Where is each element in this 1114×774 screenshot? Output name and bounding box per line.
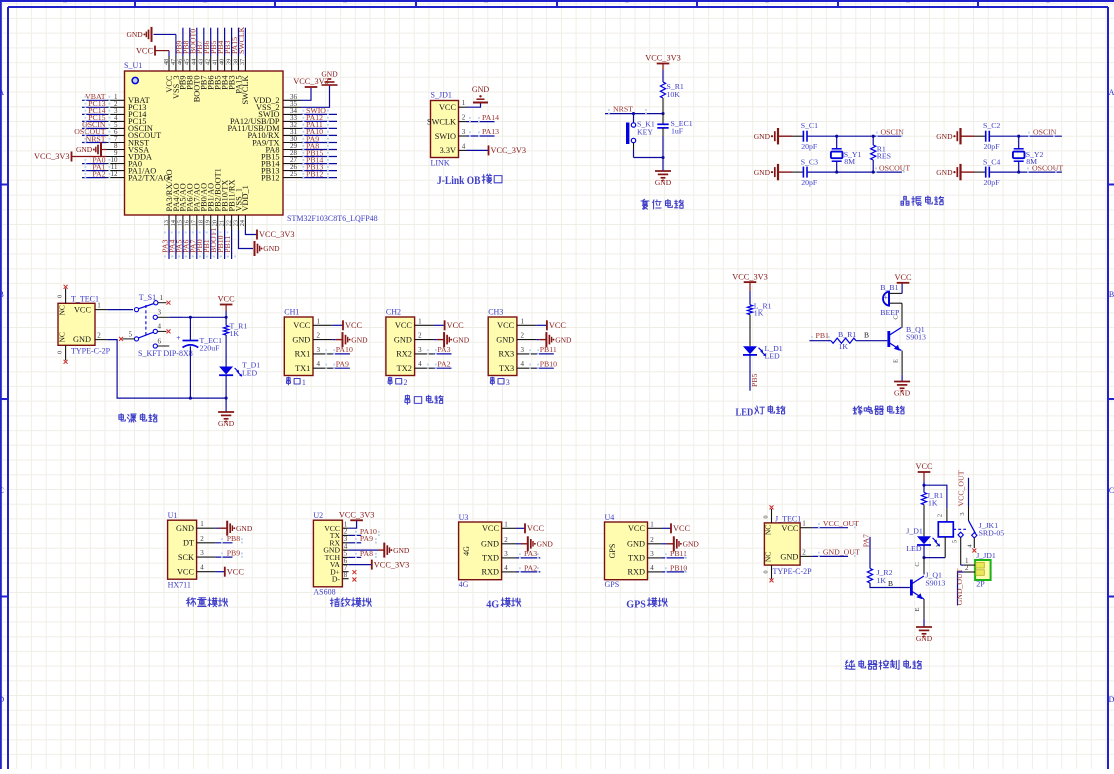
svg-text:TYPE-C-2P: TYPE-C-2P — [71, 347, 111, 356]
svg-text:1: 1 — [650, 520, 654, 528]
svg-text:GND: GND — [555, 335, 572, 344]
svg-text:TXD: TXD — [482, 554, 499, 563]
svg-text:B_B1: B_B1 — [880, 283, 898, 292]
svg-text:PA13: PA13 — [482, 127, 499, 136]
svg-text:3: 3 — [504, 550, 508, 558]
svg-text:B_R1: B_R1 — [838, 330, 856, 339]
svg-text:PA2: PA2 — [524, 563, 537, 572]
svg-text:PA2/TX/AO: PA2/TX/AO — [128, 173, 170, 182]
svg-text:4: 4 — [418, 360, 422, 368]
svg-text:25: 25 — [290, 170, 298, 178]
svg-text:VCC_3V3: VCC_3V3 — [732, 272, 768, 281]
svg-text:VCC_3V3: VCC_3V3 — [34, 152, 70, 161]
svg-text:GND: GND — [754, 132, 771, 141]
svg-text:GND: GND — [73, 335, 91, 344]
svg-text:C: C — [914, 562, 921, 566]
svg-text:PB11: PB11 — [540, 345, 557, 354]
svg-text:GND: GND — [321, 70, 338, 79]
svg-text:VCC: VCC — [227, 567, 245, 576]
svg-text:GND: GND — [236, 524, 253, 533]
svg-text:2: 2 — [504, 536, 508, 544]
svg-text:2: 2 — [200, 535, 204, 543]
svg-text:LINK: LINK — [431, 159, 450, 168]
svg-text:TX1: TX1 — [295, 364, 310, 373]
svg-text:2: 2 — [462, 114, 466, 122]
svg-text:GND: GND — [218, 419, 235, 428]
svg-text:15: 15 — [177, 220, 184, 226]
svg-text:GND: GND — [683, 540, 700, 549]
svg-text:GND: GND — [780, 553, 798, 562]
svg-text:RXD: RXD — [627, 568, 645, 577]
svg-text:4: 4 — [520, 360, 524, 368]
svg-text:OSCOUT: OSCOUT — [1032, 164, 1063, 173]
svg-text:S_C1: S_C1 — [801, 121, 818, 130]
svg-text:VCC: VCC — [74, 305, 92, 314]
svg-text:PB12: PB12 — [306, 169, 323, 178]
svg-text:CH3: CH3 — [488, 308, 503, 317]
svg-text:5: 5 — [129, 330, 133, 338]
svg-text:42: 42 — [205, 59, 212, 65]
svg-text:3: 3 — [520, 346, 524, 354]
svg-text:GND: GND — [393, 546, 410, 555]
svg-text:CH1: CH1 — [284, 308, 299, 317]
svg-text:DT: DT — [183, 539, 194, 548]
svg-text:PB8: PB8 — [227, 534, 241, 543]
svg-text:VCC: VCC — [136, 46, 154, 55]
svg-text:TX2: TX2 — [397, 364, 412, 373]
svg-text:S_C2: S_C2 — [983, 121, 1000, 130]
svg-text:12: 12 — [111, 170, 119, 178]
svg-text:17: 17 — [191, 220, 198, 226]
svg-text:PB1: PB1 — [816, 331, 830, 340]
svg-text:3: 3 — [650, 550, 654, 558]
svg-text:PA8: PA8 — [360, 549, 373, 558]
svg-text:VCC_3V3: VCC_3V3 — [374, 560, 410, 569]
svg-text:4: 4 — [158, 322, 162, 330]
svg-text:S_JD1: S_JD1 — [431, 91, 452, 100]
svg-text:TXD: TXD — [628, 554, 645, 563]
svg-text:2: 2 — [520, 332, 524, 340]
svg-text:S9013: S9013 — [906, 333, 926, 342]
svg-text:U3: U3 — [459, 513, 469, 522]
svg-text:NC: NC — [57, 332, 66, 342]
svg-text:48: 48 — [163, 59, 170, 65]
svg-text:46: 46 — [177, 59, 184, 65]
svg-text:S_KFT DIP-8X8: S_KFT DIP-8X8 — [138, 349, 193, 358]
svg-text:TX3: TX3 — [499, 364, 514, 373]
svg-text:+: + — [884, 294, 888, 302]
svg-text:PA9: PA9 — [360, 534, 373, 543]
svg-text:VCC_3V3: VCC_3V3 — [259, 230, 295, 239]
svg-text:GND: GND — [481, 540, 499, 549]
svg-text:C: C — [0, 486, 4, 495]
svg-text:4: 4 — [200, 564, 204, 572]
svg-text:VCC: VCC — [628, 524, 646, 533]
svg-text:3: 3 — [462, 128, 466, 136]
svg-text:LED: LED — [242, 369, 258, 378]
svg-text:VCC_3V3: VCC_3V3 — [339, 511, 375, 520]
svg-text:21: 21 — [218, 220, 225, 226]
svg-text:B: B — [0, 290, 4, 299]
svg-text:GND: GND — [916, 634, 933, 643]
svg-text:AS608: AS608 — [313, 588, 335, 597]
svg-text:E: E — [893, 359, 900, 363]
svg-text:PB5: PB5 — [750, 373, 759, 387]
svg-text:KEY: KEY — [637, 128, 653, 137]
svg-text:OSCIN: OSCIN — [881, 127, 905, 136]
svg-text:SRD-05: SRD-05 — [979, 529, 1005, 538]
svg-text:GND: GND — [76, 145, 93, 154]
svg-text:OSCOUT: OSCOUT — [879, 164, 910, 173]
svg-text:2: 2 — [937, 514, 944, 517]
svg-text:C: C — [1109, 486, 1114, 495]
svg-text:STM32F103C8T6_LQFP48: STM32F103C8T6_LQFP48 — [287, 214, 378, 223]
svg-text:0: 0 — [57, 295, 64, 298]
svg-text:S_C4: S_C4 — [983, 157, 1000, 166]
svg-text:44: 44 — [191, 59, 198, 65]
svg-text:BEEP: BEEP — [880, 308, 900, 317]
svg-text:U1: U1 — [168, 511, 178, 520]
svg-text:D-: D- — [332, 574, 341, 583]
svg-text:PA7: PA7 — [861, 534, 870, 547]
svg-text:2: 2 — [965, 564, 969, 572]
svg-text:4: 4 — [317, 360, 321, 368]
svg-text:PB12: PB12 — [261, 173, 279, 182]
svg-text:NRST: NRST — [86, 134, 106, 143]
svg-text:GND: GND — [472, 85, 490, 94]
svg-text:SWIO: SWIO — [435, 132, 456, 141]
svg-text:NC: NC — [57, 305, 66, 315]
svg-text:19: 19 — [205, 220, 212, 226]
svg-text:GND: GND — [126, 30, 143, 39]
svg-text:4G: 4G — [486, 599, 499, 611]
svg-text:GND: GND — [394, 335, 412, 344]
svg-text:S_C3: S_C3 — [801, 157, 818, 166]
svg-text:NC: NC — [764, 552, 773, 562]
svg-text:GND: GND — [292, 335, 310, 344]
svg-text:GND: GND — [496, 335, 514, 344]
svg-text:SWCLK: SWCLK — [237, 26, 246, 54]
svg-text:0: 0 — [763, 570, 770, 573]
svg-text:3: 3 — [158, 308, 162, 316]
svg-text:J_JD1: J_JD1 — [976, 551, 996, 560]
svg-text:NC: NC — [764, 525, 773, 535]
svg-text:2: 2 — [802, 548, 806, 556]
svg-text:VCC: VCC — [894, 273, 912, 282]
svg-text:1K: 1K — [839, 342, 849, 351]
svg-text:J_D1: J_D1 — [906, 527, 923, 536]
svg-text:4G: 4G — [462, 546, 471, 556]
svg-text:J_TEC1: J_TEC1 — [775, 514, 801, 523]
svg-text:VCC_3V3: VCC_3V3 — [645, 54, 681, 63]
svg-text:VCC_OUT: VCC_OUT — [823, 519, 859, 528]
svg-text:1K: 1K — [877, 576, 887, 585]
svg-text:3: 3 — [506, 378, 510, 387]
svg-text:VCC: VCC — [482, 524, 500, 533]
svg-text:LED: LED — [765, 352, 781, 361]
svg-text:2P: 2P — [976, 580, 985, 589]
svg-text:4: 4 — [650, 564, 654, 572]
svg-text:4: 4 — [462, 142, 466, 150]
svg-text:RX3: RX3 — [499, 350, 515, 359]
svg-text:A: A — [0, 88, 4, 97]
svg-text:HX711: HX711 — [168, 581, 191, 590]
svg-text:3: 3 — [418, 346, 422, 354]
svg-text:+: + — [176, 333, 180, 342]
svg-text:GPS: GPS — [605, 580, 620, 589]
svg-text:GND: GND — [936, 168, 953, 177]
svg-text:8M: 8M — [844, 157, 855, 166]
svg-text:PB9: PB9 — [227, 548, 241, 557]
svg-text:VCC_3V3: VCC_3V3 — [491, 146, 527, 155]
svg-text:6: 6 — [158, 337, 162, 345]
svg-text:GND: GND — [627, 540, 645, 549]
svg-text:GND_OUT: GND_OUT — [955, 568, 964, 605]
svg-text:GND: GND — [655, 178, 672, 187]
svg-text:RX1: RX1 — [295, 350, 311, 359]
svg-text:1: 1 — [200, 520, 204, 528]
svg-text:20pF: 20pF — [984, 178, 1001, 187]
svg-text:1: 1 — [935, 544, 942, 547]
svg-text:GND: GND — [263, 244, 280, 253]
svg-text:VCC: VCC — [395, 321, 413, 330]
svg-text:B: B — [888, 579, 893, 588]
svg-text:1K: 1K — [230, 329, 240, 338]
svg-text:VCC: VCC — [915, 462, 933, 471]
svg-text:E: E — [914, 607, 921, 611]
svg-text:2: 2 — [404, 378, 408, 387]
svg-text:PB10: PB10 — [540, 359, 557, 368]
svg-text:PA2: PA2 — [92, 169, 105, 178]
svg-text:J-Link OB: J-Link OB — [437, 175, 481, 187]
svg-text:4: 4 — [504, 564, 508, 572]
svg-text:PA3: PA3 — [524, 549, 537, 558]
svg-text:GND: GND — [754, 168, 771, 177]
svg-text:U4: U4 — [605, 513, 615, 522]
svg-text:3: 3 — [317, 346, 321, 354]
svg-text:B: B — [864, 330, 869, 339]
svg-text:GND: GND — [176, 524, 194, 533]
svg-text:S9013: S9013 — [925, 579, 945, 588]
svg-text:1: 1 — [462, 99, 466, 107]
svg-text:PA14: PA14 — [482, 113, 499, 122]
svg-text:VCC: VCC — [447, 321, 465, 330]
svg-text:5: 5 — [952, 540, 959, 543]
svg-text:20pF: 20pF — [801, 142, 818, 151]
svg-text:PA2: PA2 — [437, 359, 450, 368]
svg-text:SWCLK: SWCLK — [241, 75, 250, 104]
svg-text:GND: GND — [894, 388, 911, 397]
svg-text:1: 1 — [317, 317, 321, 325]
svg-text:20pF: 20pF — [801, 178, 818, 187]
svg-text:3: 3 — [959, 512, 966, 515]
svg-text:2: 2 — [418, 332, 422, 340]
svg-text:1: 1 — [504, 520, 508, 528]
svg-text:D: D — [1109, 695, 1114, 704]
svg-text:2: 2 — [97, 332, 101, 340]
svg-text:GND: GND — [453, 335, 470, 344]
svg-text:4G: 4G — [459, 580, 469, 589]
svg-text:1: 1 — [97, 302, 101, 310]
svg-text:VDD_1: VDD_1 — [241, 185, 250, 211]
svg-text:1K: 1K — [754, 309, 764, 318]
svg-text:D: D — [0, 695, 4, 704]
svg-text:3.3V: 3.3V — [440, 146, 456, 155]
svg-text:0: 0 — [763, 515, 770, 518]
svg-text:U2: U2 — [313, 511, 323, 520]
svg-text:SCK: SCK — [178, 553, 194, 562]
svg-text:PA3: PA3 — [437, 345, 450, 354]
svg-text:VCC: VCC — [293, 321, 311, 330]
svg-text:2: 2 — [317, 332, 321, 340]
svg-text:VCC: VCC — [218, 295, 236, 304]
svg-text:1: 1 — [418, 317, 422, 325]
svg-text:10K: 10K — [667, 90, 681, 99]
svg-text:T_S1: T_S1 — [139, 293, 156, 302]
svg-text:13: 13 — [163, 220, 170, 226]
svg-text:GPS: GPS — [626, 599, 646, 611]
svg-text:VCC: VCC — [781, 524, 799, 533]
svg-text:3: 3 — [200, 549, 204, 557]
svg-text:1uF: 1uF — [671, 126, 684, 135]
svg-text:220uF: 220uF — [200, 344, 221, 353]
svg-text:T_TEC1: T_TEC1 — [71, 295, 99, 304]
svg-text:GPS: GPS — [608, 544, 617, 559]
svg-text:2: 2 — [650, 536, 654, 544]
svg-text:1: 1 — [520, 317, 524, 325]
svg-text:20pF: 20pF — [984, 142, 1001, 151]
svg-text:RX2: RX2 — [396, 350, 412, 359]
svg-text:GND: GND — [351, 335, 368, 344]
svg-text:SWCLK: SWCLK — [427, 117, 456, 126]
svg-text:37: 37 — [239, 59, 246, 65]
svg-text:8: 8 — [344, 571, 348, 579]
svg-text:RES: RES — [877, 152, 891, 161]
svg-text:VCC_OUT: VCC_OUT — [957, 470, 966, 506]
svg-text:NRST: NRST — [613, 105, 633, 114]
svg-text:GND: GND — [537, 540, 554, 549]
svg-text:VCC: VCC — [177, 568, 195, 577]
svg-text:B: B — [1109, 290, 1114, 299]
svg-text:24: 24 — [239, 220, 246, 226]
svg-text:PB11: PB11 — [223, 236, 232, 253]
svg-text:40: 40 — [218, 59, 225, 65]
svg-text:1: 1 — [160, 294, 164, 302]
svg-text:VCC: VCC — [497, 321, 515, 330]
svg-text:GND: GND — [936, 132, 953, 141]
svg-text:VCC: VCC — [439, 103, 457, 112]
svg-text:PA9: PA9 — [336, 359, 349, 368]
svg-text:TYPE-C-2P: TYPE-C-2P — [773, 567, 813, 576]
svg-text:LED: LED — [736, 407, 754, 419]
svg-text:VCC: VCC — [345, 321, 363, 330]
svg-text:0: 0 — [57, 351, 64, 354]
svg-text:RXD: RXD — [481, 568, 499, 577]
svg-text:S_U1: S_U1 — [124, 61, 142, 70]
svg-text:VCC: VCC — [673, 524, 691, 533]
svg-text:VCC: VCC — [549, 321, 567, 330]
svg-text:A: A — [1109, 88, 1114, 97]
svg-text:1: 1 — [802, 520, 806, 528]
svg-text:1: 1 — [302, 378, 306, 387]
svg-text:LED: LED — [906, 544, 922, 553]
svg-text:VCC: VCC — [527, 524, 545, 533]
svg-text:1K: 1K — [928, 499, 938, 508]
svg-text:CH2: CH2 — [386, 308, 401, 317]
svg-text:PA10: PA10 — [336, 345, 353, 354]
